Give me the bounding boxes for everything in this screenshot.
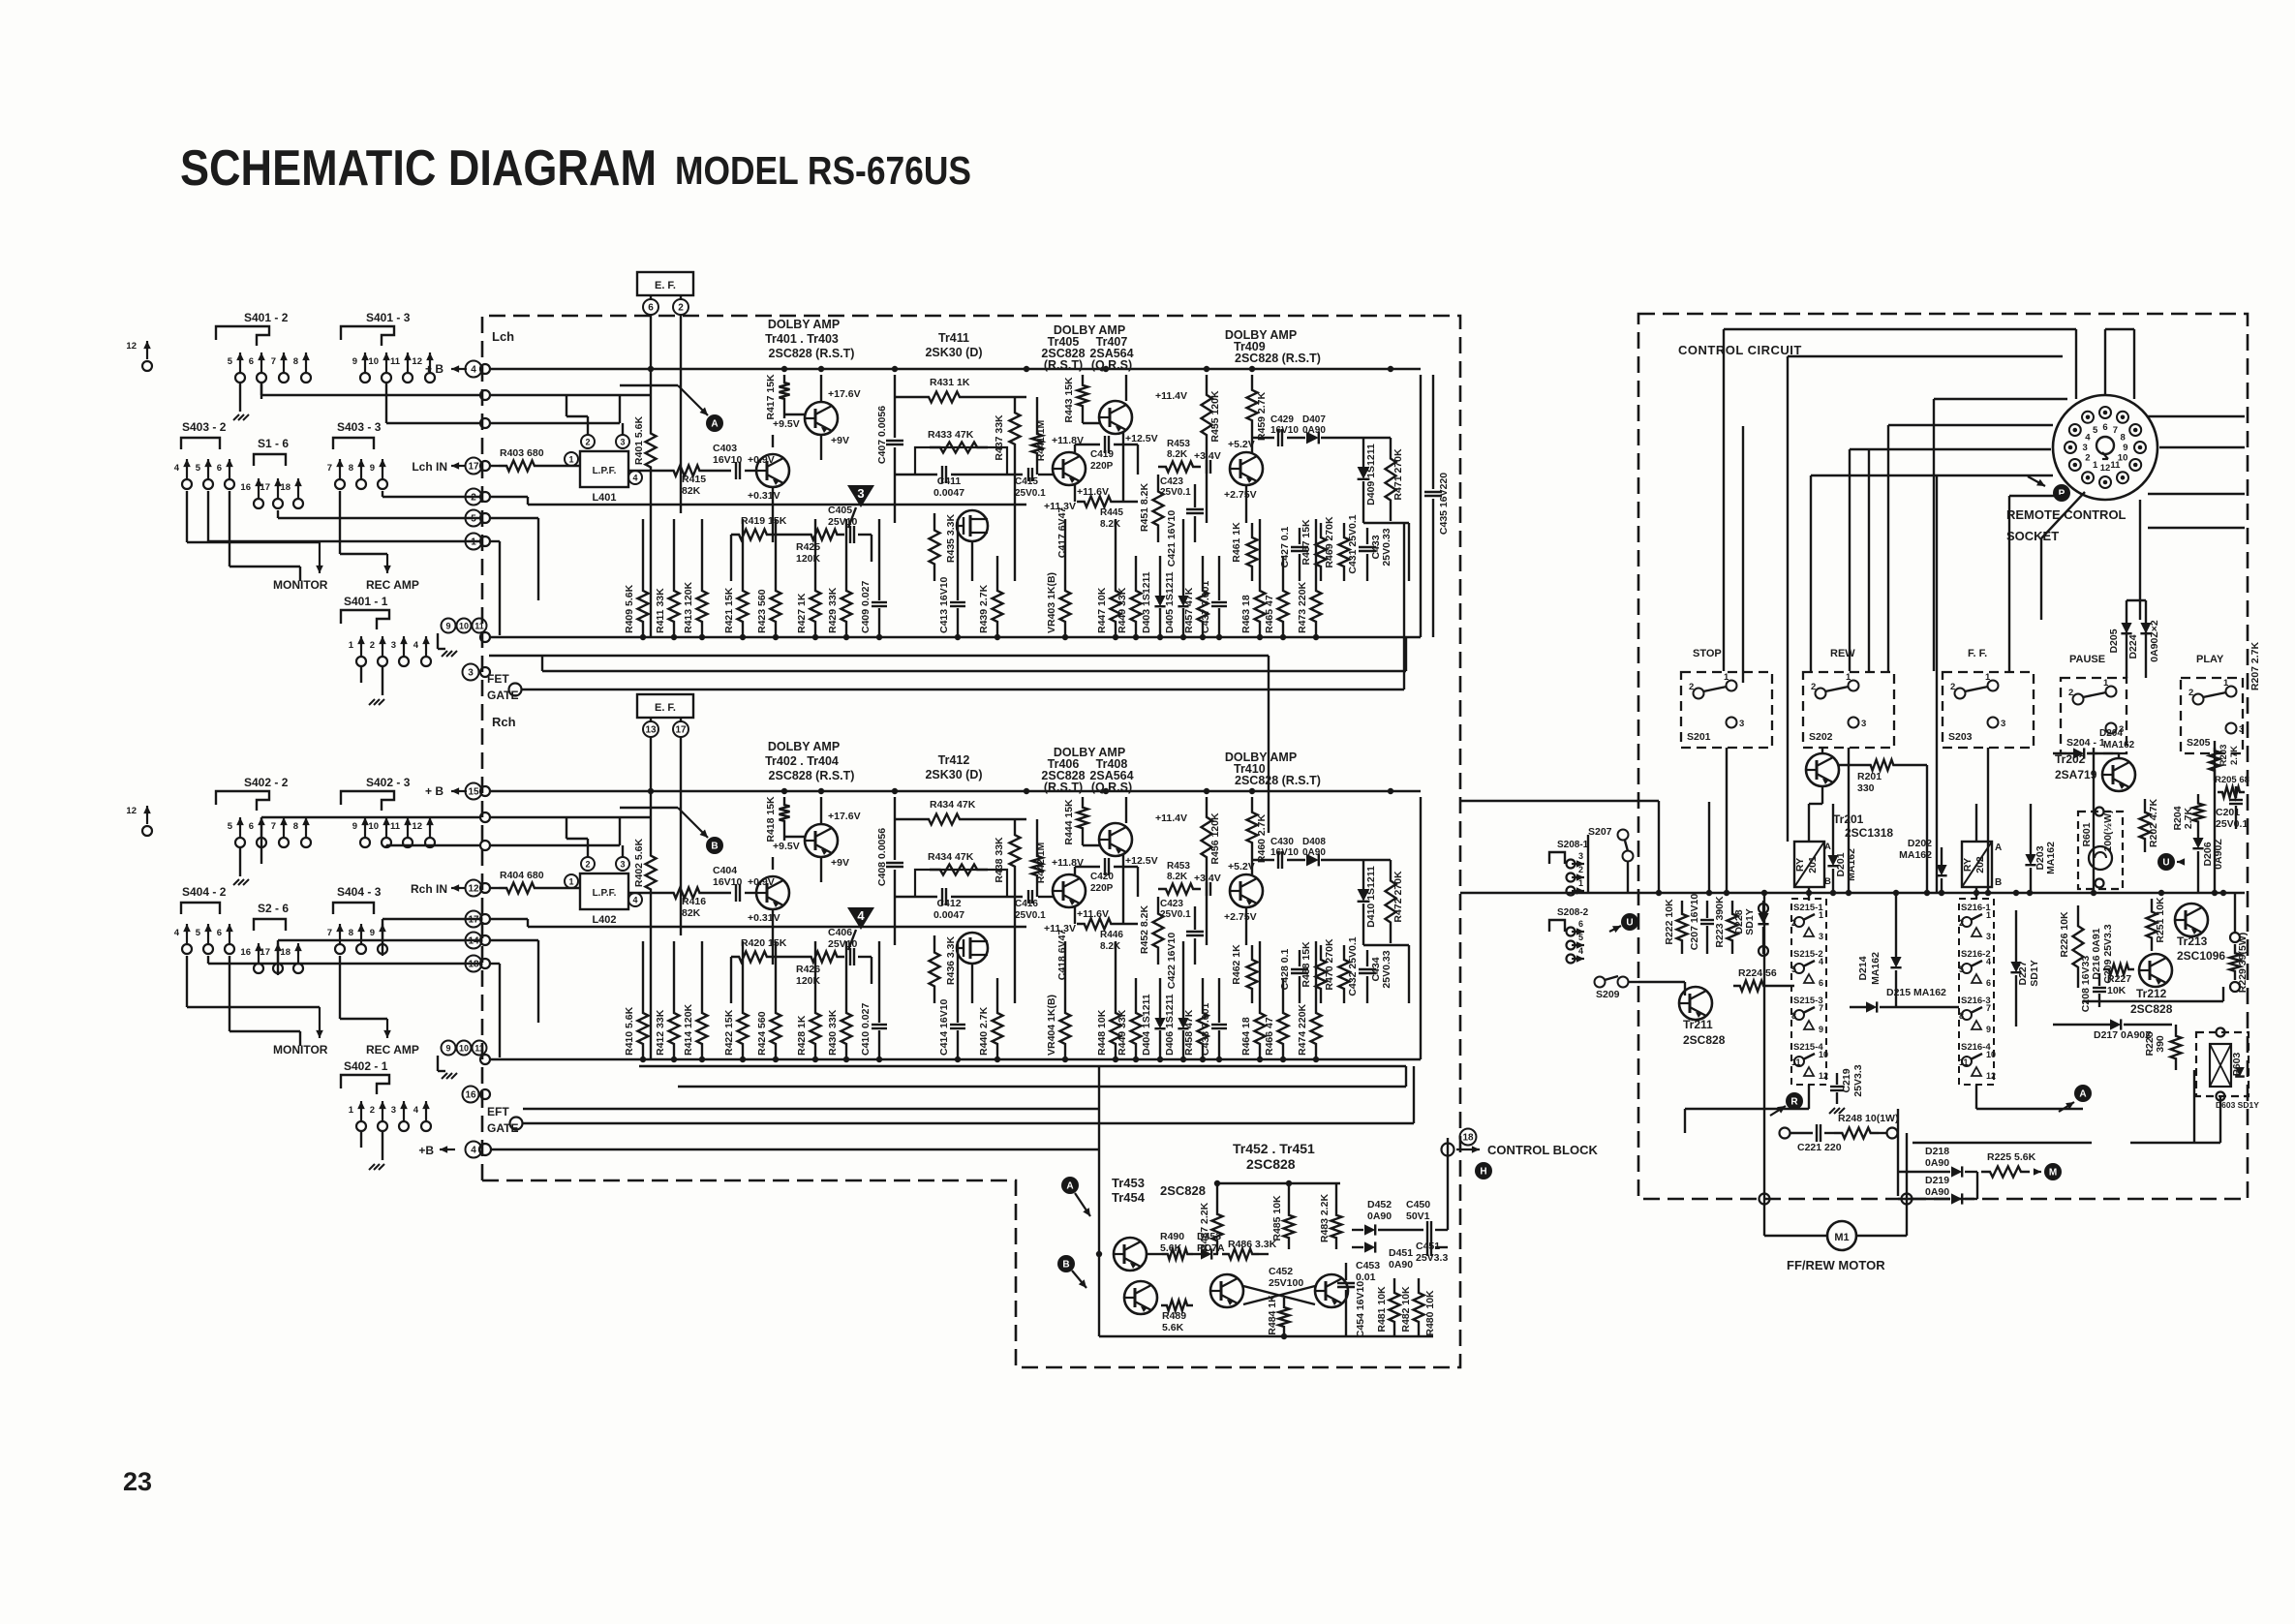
svg-text:R427 1K: R427 1K [796,593,808,633]
svg-text:25V100: 25V100 [1269,1277,1303,1289]
svg-text:+5.2V: +5.2V [1228,439,1255,450]
svg-text:2.7K: 2.7K [2229,746,2240,765]
svg-text:1: 1 [1846,672,1851,683]
svg-text:11: 11 [1959,1057,1969,1067]
svg-text:0.0047: 0.0047 [933,909,964,921]
svg-text:R: R [1790,1097,1798,1108]
svg-text:M: M [2049,1168,2057,1179]
svg-text:10: 10 [368,356,379,367]
svg-text:4: 4 [471,364,476,375]
svg-text:12: 12 [2100,463,2111,474]
svg-text:R402 5.6K: R402 5.6K [633,838,645,887]
svg-text:R458 47K: R458 47K [1183,1009,1195,1056]
svg-text:+17.6V: +17.6V [828,811,861,822]
svg-text:R462 1K: R462 1K [1231,944,1242,985]
svg-text:R601: R601 [2081,822,2093,846]
svg-text:23: 23 [123,1467,152,1496]
svg-text:RY: RY [1794,858,1806,872]
svg-text:8: 8 [2120,433,2125,444]
svg-text:0A90: 0A90 [1302,425,1326,436]
svg-text:D405 1S1211: D405 1S1211 [1164,571,1176,633]
svg-text:+0.31V: +0.31V [748,490,780,502]
svg-text:2SC828 (R.S.T): 2SC828 (R.S.T) [769,769,855,782]
svg-text:12: 12 [126,806,137,816]
svg-text:Tr402 . Tr404: Tr402 . Tr404 [765,754,839,768]
svg-text:REMOTE CONTROL: REMOTE CONTROL [2006,507,2127,522]
svg-text:+9V: +9V [831,857,849,869]
svg-text:10: 10 [459,1043,469,1053]
svg-text:1: 1 [568,455,573,465]
svg-text:9: 9 [1986,1025,1991,1034]
svg-text:3: 3 [2239,724,2244,735]
svg-text:C412: C412 [936,898,961,909]
svg-text:8: 8 [293,356,298,367]
svg-text:Rch IN: Rch IN [411,882,447,896]
svg-text:R223 390K: R223 390K [1714,896,1726,948]
svg-text:D410 1S1211: D410 1S1211 [1365,866,1377,928]
svg-text:S402 - 3: S402 - 3 [366,776,411,789]
svg-text:R490: R490 [1160,1231,1184,1242]
svg-text:R445: R445 [1100,507,1123,518]
svg-text:MONITOR: MONITOR [273,578,328,592]
svg-text:12: 12 [126,341,137,352]
svg-text:S403 - 2: S403 - 2 [182,420,227,434]
svg-text:7: 7 [1819,1003,1823,1013]
svg-text:6: 6 [249,356,254,367]
svg-text:R484 1K: R484 1K [1267,1295,1278,1335]
svg-text:1: 1 [2223,678,2229,689]
svg-text:C207 16V10: C207 16V10 [1689,894,1700,951]
svg-text:R414 120K: R414 120K [683,1003,694,1056]
svg-text:3: 3 [1819,932,1823,941]
svg-text:3: 3 [2082,443,2087,453]
svg-text:C413 16V10: C413 16V10 [938,576,950,633]
svg-text:1: 1 [349,640,354,651]
svg-text:9: 9 [352,356,357,367]
svg-text:10K: 10K [2107,985,2127,996]
svg-text:R404 680: R404 680 [500,870,544,881]
svg-text:MA162: MA162 [1870,952,1882,985]
svg-text:A: A [2079,1089,2086,1100]
svg-text:2SC828 (R.S.T): 2SC828 (R.S.T) [1235,352,1321,365]
svg-text:D404 1S1211: D404 1S1211 [1141,994,1152,1056]
svg-text:C423: C423 [1160,899,1183,909]
svg-text:1: 1 [471,536,476,547]
svg-text:R417 15K: R417 15K [765,374,777,420]
svg-text:R482 10K: R482 10K [1400,1286,1412,1333]
svg-text:R436 3.3K: R436 3.3K [945,935,957,985]
svg-text:D451: D451 [1389,1247,1413,1259]
svg-text:R463 18: R463 18 [1240,595,1252,633]
svg-text:10: 10 [1819,1050,1828,1059]
svg-text:220P: 220P [1090,883,1114,894]
svg-text:R449 33K: R449 33K [1117,1009,1128,1056]
svg-text:17: 17 [468,461,479,472]
svg-text:R403 680: R403 680 [500,447,544,459]
svg-text:R222 10K: R222 10K [1664,899,1675,945]
svg-text:2SA719: 2SA719 [2055,768,2097,781]
svg-text:SOCKET: SOCKET [2006,529,2059,543]
svg-text:A: A [1995,843,2002,853]
svg-text:C410 0.027: C410 0.027 [860,1003,872,1056]
svg-text:3: 3 [857,486,864,501]
svg-text:REW: REW [1830,648,1855,659]
svg-text:L.P.F.: L.P.F. [593,888,617,899]
svg-text:16V10: 16V10 [713,876,743,888]
svg-text:2.7K: 2.7K [2183,807,2194,829]
svg-text:+17.6V: +17.6V [828,388,861,400]
svg-text:R422 15K: R422 15K [723,1009,735,1056]
svg-text:R433 47K: R433 47K [928,429,974,441]
svg-text:SD1Y: SD1Y [2029,960,2040,986]
svg-text:R428 1K: R428 1K [796,1015,808,1056]
svg-text:12: 12 [468,883,479,894]
svg-text:RY: RY [1962,858,1974,872]
svg-text:Tr411: Tr411 [938,331,969,345]
svg-text:120K: 120K [796,553,821,565]
svg-text:+9.5V: +9.5V [773,418,800,430]
svg-text:+12.5V: +12.5V [1125,855,1158,867]
svg-text:17: 17 [675,724,687,735]
svg-text:R203: R203 [2218,745,2229,767]
svg-text:D214: D214 [1857,956,1869,980]
svg-text:R468 15K: R468 15K [1300,941,1312,988]
svg-text:8.2K: 8.2K [1100,519,1121,530]
svg-text:S401 - 3: S401 - 3 [366,311,411,324]
svg-text:+11.4V: +11.4V [1155,390,1187,402]
svg-text:1: 1 [2103,678,2109,689]
svg-text:C431 25V0.1: C431 25V0.1 [1347,514,1359,573]
svg-text:+3.4V: +3.4V [1194,873,1221,884]
svg-text:+2.75V: +2.75V [1224,489,1257,501]
svg-text:+11.6V: +11.6V [1077,908,1109,920]
svg-text:R448 10K: R448 10K [1096,1009,1108,1056]
svg-text:R487 2.2K: R487 2.2K [1199,1202,1210,1251]
svg-text:S404 - 2: S404 - 2 [182,885,227,899]
svg-text:R485 10K: R485 10K [1271,1195,1283,1241]
svg-text:2: 2 [471,492,476,503]
svg-text:Rch: Rch [492,715,516,729]
svg-text:Tr454: Tr454 [1112,1190,1146,1205]
svg-text:2: 2 [585,860,590,870]
svg-text:6: 6 [1819,978,1823,988]
svg-text:R207 2.7K: R207 2.7K [2249,641,2261,690]
svg-text:L.P.F.: L.P.F. [593,466,617,476]
svg-text:C414 16V10: C414 16V10 [938,998,950,1056]
svg-text:D403 1S1211: D403 1S1211 [1141,571,1152,633]
svg-text:R424 560: R424 560 [756,1011,768,1056]
svg-text:FF/REW MOTOR: FF/REW MOTOR [1787,1258,1885,1272]
svg-text:8: 8 [1791,1011,1796,1021]
svg-text:R443 15K: R443 15K [1063,377,1075,423]
svg-text:D406 1S1211: D406 1S1211 [1164,994,1176,1056]
svg-text:25V0.1: 25V0.1 [1015,910,1046,921]
svg-text:+11.6V: +11.6V [1077,486,1109,498]
svg-text:0A90: 0A90 [1367,1210,1392,1222]
svg-text:11: 11 [390,821,401,832]
svg-text:1: 1 [1819,910,1823,920]
svg-text:12: 12 [412,821,422,832]
svg-text:3: 3 [620,438,625,447]
svg-text:S1 - 6: S1 - 6 [258,437,289,450]
svg-text:4: 4 [632,896,637,905]
svg-text:16V10: 16V10 [1270,425,1299,436]
svg-text:25V0.1: 25V0.1 [1160,909,1191,920]
svg-text:1: 1 [349,1105,354,1116]
svg-text:2SC1096: 2SC1096 [2177,949,2225,963]
svg-text:390: 390 [2155,1035,2166,1053]
svg-text:R451 8.2K: R451 8.2K [1139,482,1150,532]
svg-text:C403: C403 [713,443,737,454]
svg-text:5: 5 [1578,933,1583,942]
svg-text:Tr213: Tr213 [2177,935,2208,948]
svg-text:D407: D407 [1302,414,1326,425]
svg-text:C421 16V10: C421 16V10 [1166,510,1178,567]
svg-text:VR404 1K(B): VR404 1K(B) [1046,995,1057,1056]
svg-text:MONITOR: MONITOR [273,1043,328,1057]
svg-text:9: 9 [1819,1025,1823,1034]
svg-text:D224: D224 [2127,634,2139,659]
svg-text:7: 7 [1986,1003,1991,1013]
svg-text:C437 0.001: C437 0.001 [1200,581,1211,633]
svg-text:16: 16 [240,482,251,493]
svg-text:2SK30 (D): 2SK30 (D) [925,768,982,781]
svg-text:+9V: +9V [831,435,849,446]
svg-text:R449 33K: R449 33K [1117,587,1128,633]
svg-text:+2.75V: +2.75V [1224,911,1257,923]
svg-text:R224 56: R224 56 [1738,967,1777,979]
svg-text:S2 - 6: S2 - 6 [258,902,289,915]
svg-text:4: 4 [632,474,637,483]
svg-text:EFT: EFT [487,1105,509,1118]
svg-text:11: 11 [390,356,401,367]
svg-text:C219: C219 [1841,1068,1852,1092]
svg-text:12: 12 [412,356,422,367]
svg-text:B: B [711,842,718,852]
svg-text:D202: D202 [1908,838,1932,849]
svg-text:0A90: 0A90 [1925,1186,1949,1198]
svg-text:MA162: MA162 [2103,740,2135,751]
svg-text:C450: C450 [1406,1199,1430,1210]
svg-text:C423: C423 [1160,476,1183,487]
svg-text:15: 15 [468,786,479,797]
svg-text:25V0.1: 25V0.1 [1160,487,1191,498]
svg-text:R469 270K: R469 270K [1324,516,1335,568]
svg-text:5: 5 [471,513,476,524]
svg-text:C428 0.1: C428 0.1 [1279,949,1291,991]
svg-text:C409 0.027: C409 0.027 [860,581,872,633]
svg-text:8.2K: 8.2K [1167,449,1188,460]
svg-text:17: 17 [468,914,479,925]
svg-text:D452: D452 [1367,1199,1392,1210]
svg-text:2SC828: 2SC828 [1246,1156,1296,1172]
svg-text:6: 6 [217,928,222,938]
svg-text:4: 4 [413,640,419,651]
svg-text:3: 3 [2001,719,2005,729]
svg-text:8.2K: 8.2K [1100,941,1121,952]
svg-text:U: U [1626,918,1633,929]
svg-text:6: 6 [1578,919,1583,929]
svg-text:R420 15K: R420 15K [741,937,787,949]
svg-text:A: A [711,419,718,430]
svg-text:2: 2 [370,1105,375,1116]
svg-text:8: 8 [349,463,353,474]
svg-text:3: 3 [620,860,625,870]
svg-text:+ B: + B [425,362,444,376]
svg-text:11: 11 [1791,1057,1801,1067]
svg-text:R416: R416 [682,896,706,907]
svg-text:R457 47K: R457 47K [1183,587,1195,633]
svg-text:6: 6 [648,302,654,313]
svg-text:L402: L402 [592,914,616,926]
svg-text:S402 - 1: S402 - 1 [344,1059,388,1073]
svg-text:2: 2 [1791,918,1796,928]
svg-text:R415: R415 [682,474,706,485]
svg-text:2: 2 [1811,682,1816,692]
svg-text:0A90: 0A90 [1925,1157,1949,1169]
svg-text:C432 25V0.1: C432 25V0.1 [1347,936,1359,996]
svg-text:S203: S203 [1948,731,1973,743]
svg-text:1: 1 [1986,910,1991,920]
svg-text:17: 17 [260,947,270,958]
svg-text:7: 7 [2113,425,2118,436]
svg-text:B: B [1995,877,2002,888]
svg-text:2: 2 [1959,918,1964,928]
svg-text:C221 220: C221 220 [1797,1142,1842,1153]
svg-text:C420: C420 [1090,872,1114,882]
svg-text:R453: R453 [1167,861,1190,872]
svg-text:R226 10K: R226 10K [2059,911,2070,958]
svg-text:R425: R425 [796,541,820,553]
svg-text:14: 14 [468,935,479,946]
svg-text:D409 1S1211: D409 1S1211 [1365,444,1377,506]
svg-text:Lch: Lch [492,329,514,344]
svg-text:(R.S.T): (R.S.T) [1044,358,1083,372]
svg-text:2: 2 [585,438,590,447]
svg-text:5: 5 [1959,965,1964,974]
svg-text:S208-1: S208-1 [1557,840,1589,850]
svg-text:S201: S201 [1687,731,1711,743]
svg-text:220P: 220P [1090,461,1114,472]
svg-text:S402 - 2: S402 - 2 [244,776,289,789]
svg-text:Lch IN: Lch IN [412,460,447,474]
svg-text:0.0047: 0.0047 [933,487,964,499]
svg-text:8: 8 [293,821,298,832]
svg-text:R439 2.7K: R439 2.7K [978,584,990,633]
svg-text:(Q.R.S): (Q.R.S) [1091,358,1132,372]
svg-text:0A90: 0A90 [1302,847,1326,858]
svg-text:R429 33K: R429 33K [827,587,839,633]
svg-text:Tr453: Tr453 [1112,1176,1145,1190]
svg-text:100(½W): 100(½W) [2102,810,2114,851]
svg-text:REC AMP: REC AMP [366,578,419,592]
svg-text:17: 17 [260,482,270,493]
svg-text:R467 15K: R467 15K [1300,519,1312,566]
svg-text:5: 5 [228,356,233,367]
svg-text:4: 4 [413,1105,419,1116]
svg-text:5: 5 [196,463,201,474]
svg-text:4: 4 [471,1145,476,1155]
svg-text:FET: FET [487,672,509,686]
svg-text:25V0.1: 25V0.1 [1015,488,1046,499]
svg-text:R483 2.2K: R483 2.2K [1319,1193,1331,1242]
svg-text:3: 3 [1578,851,1583,861]
svg-text:3: 3 [1986,932,1991,941]
svg-text:C453: C453 [1356,1260,1380,1272]
svg-text:5: 5 [196,928,201,938]
svg-text:D204: D204 [2099,728,2123,739]
svg-text:C435 16V220: C435 16V220 [1438,473,1450,535]
svg-text:8.2K: 8.2K [1167,872,1188,882]
svg-text:R453: R453 [1167,439,1190,449]
svg-text:0A90Z×2: 0A90Z×2 [2149,620,2160,662]
svg-text:7: 7 [327,463,332,474]
svg-text:R437 33K: R437 33K [994,414,1005,461]
svg-text:R248 10(1W): R248 10(1W) [1838,1113,1898,1124]
svg-text:R418 15K: R418 15K [765,796,777,843]
svg-text:0A90Z: 0A90Z [2213,839,2224,870]
svg-text:18: 18 [468,959,479,969]
svg-text:R440 2.7K: R440 2.7K [978,1006,990,1056]
svg-text:D205: D205 [2108,628,2120,653]
svg-text:R435 3.3K: R435 3.3K [945,513,957,563]
svg-text:10: 10 [1986,1050,1996,1059]
svg-text:2: 2 [1950,682,1955,692]
svg-text:CONTROL BLOCK: CONTROL BLOCK [1487,1143,1598,1157]
svg-text:+11.4V: +11.4V [1155,812,1187,824]
svg-text:25V0.33: 25V0.33 [1381,950,1392,988]
svg-text:D408: D408 [1302,837,1326,847]
svg-text:M1: M1 [1834,1232,1849,1243]
svg-text:C411: C411 [937,475,962,487]
svg-text:18: 18 [1462,1132,1474,1143]
svg-text:L401: L401 [592,492,616,504]
svg-text:2SC828 (R.S.T): 2SC828 (R.S.T) [769,347,855,360]
svg-text:S401 - 2: S401 - 2 [244,311,289,324]
svg-text:R225 5.6K: R225 5.6K [1987,1151,2036,1163]
svg-text:6: 6 [1986,978,1991,988]
svg-text:2SC828: 2SC828 [2130,1002,2173,1016]
svg-text:C404: C404 [713,865,737,876]
svg-text:R410 5.6K: R410 5.6K [624,1006,635,1056]
svg-text:C416: C416 [1015,899,1038,909]
svg-text:C452: C452 [1269,1266,1293,1277]
svg-text:50V1: 50V1 [1406,1210,1430,1222]
svg-text:25V3.3: 25V3.3 [1852,1064,1864,1096]
svg-text:SCHEMATIC DIAGRAM: SCHEMATIC DIAGRAM [180,140,657,197]
svg-text:R461 1K: R461 1K [1231,522,1242,563]
svg-text:1: 1 [1724,672,1729,683]
svg-text:STOP: STOP [1693,648,1722,659]
svg-text:R251 10K: R251 10K [2155,897,2166,943]
svg-text:S207: S207 [1588,826,1612,838]
svg-text:(Q.R.S): (Q.R.S) [1091,781,1132,794]
svg-text:10: 10 [368,821,379,832]
svg-text:9: 9 [2123,443,2127,453]
svg-text:3: 3 [391,1105,396,1116]
svg-text:0A90: 0A90 [1389,1259,1413,1271]
svg-text:F. F.: F. F. [1968,648,1987,659]
svg-text:R401 5.6K: R401 5.6K [633,415,645,465]
svg-text:D216 0A91: D216 0A91 [2091,928,2102,979]
svg-text:R205 68: R205 68 [2215,775,2249,785]
svg-text:2SC1318: 2SC1318 [1845,826,1893,840]
svg-text:18: 18 [280,947,291,958]
svg-text:2SK30 (D): 2SK30 (D) [925,346,982,359]
svg-text:D218: D218 [1925,1146,1949,1157]
svg-text:S404 - 3: S404 - 3 [337,885,382,899]
svg-text:MODEL RS-676US: MODEL RS-676US [675,148,971,193]
